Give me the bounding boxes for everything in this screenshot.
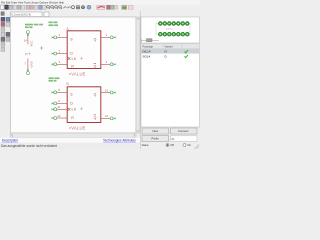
svg-text:N: N bbox=[165, 50, 167, 54]
row 1 DIL14 selected bbox=[141, 49, 199, 54]
svg-text:Q: Q bbox=[94, 92, 97, 96]
svg-text:Off: Off bbox=[170, 143, 174, 147]
power gate P: VCC pin bbox=[24, 31, 34, 47]
svg-text:0.1 inch (0.9 2.4): 0.1 inch (0.9 2.4) bbox=[11, 12, 31, 16]
gate B pin S (left, y92.3) bbox=[51, 88, 67, 94]
package pads top row bbox=[159, 22, 190, 26]
svg-text:Value: Value bbox=[142, 143, 149, 147]
gate A pin CLR (left, y64.3) bbox=[51, 60, 67, 66]
svg-text:Description: Description bbox=[2, 139, 18, 143]
canvas horizontal scrollbar bbox=[11, 133, 137, 138]
description/links row bbox=[0, 138, 140, 143]
prefix value field bbox=[171, 136, 198, 141]
green annotation text block 3 (between gates) bbox=[49, 77, 60, 81]
gate B body bbox=[67, 87, 101, 123]
gate B pin Q (right, y92.5) bbox=[101, 88, 116, 94]
svg-text:CLK: CLK bbox=[69, 108, 77, 112]
svg-text:Prefix: Prefix bbox=[152, 137, 160, 141]
gate A body bbox=[67, 31, 101, 69]
dimension / slider widget under preview bbox=[141, 39, 159, 43]
grid origin cross bbox=[40, 46, 43, 49]
status bar bbox=[0, 143, 140, 149]
power gate P: name + origin bbox=[25, 52, 31, 56]
gate B pin CLK (left, y109.3) bbox=[51, 105, 67, 111]
svg-text:>VALUE: >VALUE bbox=[69, 71, 86, 76]
canvas vertical scrollbar bbox=[136, 17, 140, 133]
svg-text:CLK: CLK bbox=[69, 57, 77, 61]
canvas bbox=[11, 17, 137, 133]
svg-text:>VALUE: >VALUE bbox=[69, 126, 86, 131]
svg-text:Das ausgewählte wurde nicht ve: Das ausgewählte wurde nicht verändert bbox=[1, 144, 57, 148]
gate B clock triangle bbox=[67, 108, 69, 111]
package DIL14 outline bbox=[156, 23, 190, 35]
svg-text:On: On bbox=[187, 143, 191, 147]
resize grip bbox=[195, 144, 200, 149]
gate B pin Qbar (right, y118.4) bbox=[101, 114, 116, 120]
Connect button bbox=[171, 128, 198, 134]
svg-text:File Edit Draw View Tools Libr: File Edit Draw View Tools Library Option… bbox=[1, 1, 64, 5]
svg-text:Q: Q bbox=[94, 116, 97, 120]
second toolbar row: grid icon + coordinate box + command box bbox=[1, 12, 49, 17]
gate A pin Q (right, y37.4) bbox=[101, 33, 116, 39]
variants table bbox=[141, 44, 200, 127]
package preview pane bbox=[141, 17, 200, 43]
green annotation text block 1 bbox=[25, 24, 43, 28]
top toolbar row bbox=[1, 5, 133, 9]
svg-text:GND: GND bbox=[30, 61, 34, 67]
Prefix button bbox=[142, 136, 169, 142]
svg-text:Variant: Variant bbox=[165, 45, 174, 49]
green annotation text block 2 bbox=[49, 22, 59, 27]
svg-text:Q: Q bbox=[94, 65, 97, 69]
gate B pin names inside bbox=[69, 92, 97, 120]
gate A origin cross bbox=[80, 57, 83, 60]
svg-text:Technologies Attributes: Technologies Attributes bbox=[103, 139, 136, 143]
gate B pin CLR (left, y118) bbox=[51, 114, 67, 120]
svg-text:Connect: Connect bbox=[178, 129, 189, 133]
gate A pin Qbar (right, y64.3) bbox=[101, 60, 116, 66]
gate B origin cross bbox=[80, 107, 83, 110]
svg-text:74*74: 74*74 bbox=[166, 28, 173, 31]
gate A clock triangle bbox=[67, 57, 69, 60]
package pads bottom row bbox=[159, 32, 190, 36]
svg-text:DIL14: DIL14 bbox=[143, 50, 151, 54]
gate A pin names inside bbox=[69, 37, 97, 68]
gate A pin D (left, y53.5) bbox=[51, 49, 67, 55]
svg-text:New: New bbox=[153, 129, 160, 133]
svg-text:IC: IC bbox=[172, 137, 175, 141]
svg-text:SO14: SO14 bbox=[143, 54, 151, 58]
gate A pin S (left, y37.4) bbox=[51, 33, 67, 39]
New button bbox=[142, 128, 169, 134]
gate B pin D (left, y103.4) bbox=[51, 99, 67, 105]
left tool palette icons bbox=[1, 17, 10, 51]
svg-text:Package: Package bbox=[143, 45, 154, 49]
power gate P: GND pin bbox=[24, 59, 33, 75]
svg-text:VCC: VCC bbox=[30, 41, 34, 47]
window chrome background bbox=[0, 0, 200, 149]
svg-text:Q: Q bbox=[94, 37, 97, 41]
